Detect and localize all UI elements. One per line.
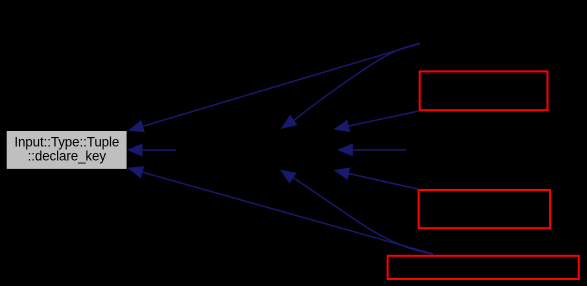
edge E5 hidden mid-right node to middle node B (horizontal)	[349, 149, 406, 151]
arrowhead A2	[282, 116, 297, 129]
node R3 red caller box bottom (wide)	[388, 256, 579, 279]
edge E1 top-vertex to grey box (straight)	[140, 44, 420, 128]
node R2 red caller box middle	[419, 190, 550, 228]
edge E8 red box 3 to middle node A (curved)	[289, 175, 434, 254]
arrowhead A3	[335, 121, 350, 132]
arrowhead A8	[281, 170, 296, 182]
svg-text:Input::Type::Tuple: Input::Type::Tuple	[14, 135, 119, 150]
arrowhead A7	[129, 167, 144, 178]
edge E7 red box 3 to grey box (straight)	[139, 171, 433, 254]
node R1 red caller box top	[420, 71, 548, 110]
edge E6 red box 2 to middle node B (straight)	[346, 173, 418, 189]
arrowhead A4	[128, 144, 142, 155]
svg-text:::declare_key: ::declare_key	[28, 149, 107, 164]
edge E2 top-vertex to middle node A (curved)	[292, 44, 421, 123]
arrowhead A1	[129, 121, 144, 132]
edge E4 middle node A to grey box (horizontal)	[138, 149, 176, 151]
arrowhead A6	[335, 168, 350, 179]
edge E3 red box 1 to middle node B (straight)	[346, 111, 420, 127]
node U1 Input::Type::Tuple::declare_key (grey callee box)	[6, 131, 127, 170]
arrowhead A5	[338, 144, 352, 155]
